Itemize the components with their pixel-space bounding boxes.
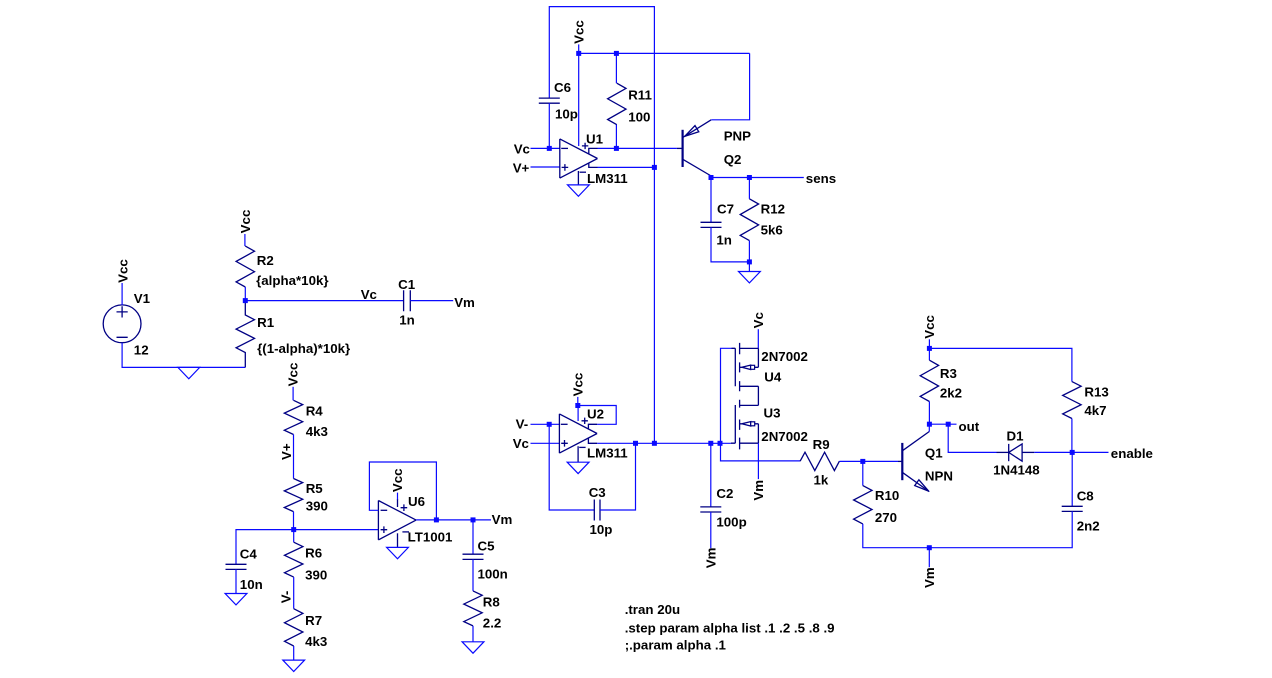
svg-text:U6: U6 <box>408 494 425 509</box>
junction sens/C7 <box>709 175 714 180</box>
svg-text:1n: 1n <box>399 312 415 327</box>
wire U1 output row to Q2 base <box>598 147 677 149</box>
junction Vcc/R3/rail <box>927 346 932 351</box>
svg-text:C5: C5 <box>478 539 496 554</box>
svg-text:sens: sens <box>806 171 836 186</box>
svg-text:LM311: LM311 <box>587 171 628 186</box>
wire U6 feedback loop <box>369 462 436 520</box>
svg-text:Vm: Vm <box>922 567 937 588</box>
svg-text:Vcc: Vcc <box>286 363 301 387</box>
diode D1 1N4148 <box>993 429 1040 478</box>
svg-text:5k6: 5k6 <box>761 223 783 238</box>
capacitor C8 <box>1062 452 1100 533</box>
junction C6/-input <box>547 146 552 151</box>
wire Q2 collector to sens row <box>710 176 712 178</box>
junction C5 tap <box>471 517 476 522</box>
svg-text:R13: R13 <box>1084 385 1108 400</box>
wire Vcc to R2 <box>244 234 246 246</box>
svg-text:Vc: Vc <box>361 287 377 302</box>
svg-text:4k3: 4k3 <box>306 424 328 439</box>
svg-text:.step param alpha list .1 .2 .: .step param alpha list .1 .2 .5 .8 .9 <box>625 620 835 635</box>
svg-text:4k7: 4k7 <box>1084 403 1106 418</box>
wire V1 top to Vcc flag <box>121 283 123 305</box>
svg-text:Q1: Q1 <box>925 446 943 461</box>
wire Vcc flag to R4 <box>292 387 294 401</box>
svg-text:{(1-alpha)*10k}: {(1-alpha)*10k} <box>257 341 350 356</box>
svg-text:R2: R2 <box>257 253 274 268</box>
wire C1 to Vm label <box>410 300 453 302</box>
wire enable node to label <box>1072 451 1108 453</box>
wire C4 to ground <box>235 569 237 593</box>
wire R2 to node <box>244 287 246 301</box>
svg-text:U2: U2 <box>587 407 604 422</box>
wire R6 to R7 (node V-) <box>293 577 295 609</box>
svg-text:Vm: Vm <box>751 480 766 501</box>
wire to ground flag <box>748 262 750 272</box>
transistor Q1 NPN <box>898 432 953 492</box>
svg-text:Vcc: Vcc <box>390 468 405 492</box>
svg-text:10p: 10p <box>590 522 613 537</box>
svg-text:LM311: LM311 <box>587 445 628 460</box>
svg-text:R5: R5 <box>306 481 324 496</box>
svg-text:Vcc: Vcc <box>238 210 253 234</box>
capacitor C5 <box>463 539 508 582</box>
ground flag under V1 rail <box>178 367 200 378</box>
svg-text:C8: C8 <box>1077 489 1094 504</box>
svg-text:C2: C2 <box>716 486 733 501</box>
junction enable node <box>1070 450 1075 455</box>
wire U6 output <box>416 519 491 521</box>
wire C3 left leg <box>549 424 594 510</box>
wire R7 to ground <box>293 646 295 660</box>
wire V1 bottom to ground rail <box>122 343 245 368</box>
wire V- label to U2 -input <box>531 423 560 425</box>
junction R9/R10 <box>860 459 865 464</box>
wire C5 to R8 <box>472 559 474 591</box>
wire U1 gnd pin to long vertical <box>598 166 655 168</box>
svg-text:10n: 10n <box>240 577 263 592</box>
svg-text:Vm: Vm <box>704 547 719 568</box>
mosfet U4 2N7002 <box>732 343 808 406</box>
wire Q2 emitter to Vcc rail <box>711 53 749 119</box>
wire Vc flag to U4 drain <box>757 329 759 348</box>
svg-text:100: 100 <box>628 109 650 124</box>
svg-text:Vm: Vm <box>492 512 513 527</box>
junction Vcc rail / R11 <box>614 51 619 56</box>
svg-text:1k: 1k <box>814 473 829 488</box>
svg-text:V1: V1 <box>134 291 151 306</box>
svg-text:R1: R1 <box>257 315 275 330</box>
resistor R10 <box>854 461 930 547</box>
svg-text:Vm: Vm <box>454 295 475 310</box>
wire out hook to D1 <box>948 424 996 452</box>
ground flag under U2 <box>567 462 589 473</box>
junction Vcc rail / U1 V+ pin <box>576 51 581 56</box>
svg-text:12: 12 <box>134 343 149 358</box>
resistor R11 <box>608 53 653 148</box>
resistor R6 <box>285 530 328 583</box>
ground flag under C4 <box>225 594 247 605</box>
wire U2 V+ pin <box>577 406 579 422</box>
svg-text:R4: R4 <box>306 404 324 419</box>
svg-text:R8: R8 <box>483 595 500 610</box>
wire R9 to Q1 base <box>839 460 898 462</box>
junction R11 bottom <box>614 146 619 151</box>
svg-text:enable: enable <box>1111 446 1153 461</box>
resistor R8 <box>464 591 502 631</box>
junction mid node <box>291 527 296 532</box>
svg-text:Vcc: Vcc <box>571 373 586 397</box>
wire C8 to bottom rail <box>929 511 1072 547</box>
svg-text:1n: 1n <box>716 233 732 248</box>
svg-text:V+: V+ <box>279 443 294 460</box>
wire top loop C6 to long vertical <box>549 7 654 444</box>
junction U6 feedback/output <box>434 517 439 522</box>
capacitor C2 <box>700 443 746 529</box>
capacitor C7 <box>701 178 735 248</box>
op-amp U6 LT1001 <box>378 494 453 547</box>
svg-text:{alpha*10k}: {alpha*10k} <box>256 273 328 288</box>
wire mid node to U6 +input <box>294 529 379 531</box>
resistor R9 <box>800 437 839 487</box>
svg-text:390: 390 <box>305 567 327 582</box>
junction C2 tap <box>708 441 713 446</box>
svg-text:390: 390 <box>306 498 328 513</box>
resistor R4 <box>284 400 328 439</box>
svg-text:Vc: Vc <box>513 436 529 451</box>
svg-text:R3: R3 <box>940 366 957 381</box>
resistor R7 <box>285 609 328 649</box>
resistor R2 <box>236 246 328 288</box>
mosfet U3 2N7002 <box>731 400 808 450</box>
svg-text:V-: V- <box>516 416 529 431</box>
voltage source V1 <box>103 291 150 358</box>
wire mid node to C4 <box>236 530 294 564</box>
junction C3 / -input <box>547 422 552 427</box>
resistor R5 <box>284 479 328 514</box>
node Vc divider junction <box>243 298 248 303</box>
svg-text:C7: C7 <box>717 202 734 217</box>
svg-text:;.param alpha .1: ;.param alpha .1 <box>625 638 727 653</box>
wire sens row <box>711 177 804 179</box>
wire R5 to mid node <box>293 512 295 530</box>
svg-text:4k3: 4k3 <box>305 634 327 649</box>
ground flag under C7/R12 rail <box>739 272 761 283</box>
svg-text:V-: V- <box>278 591 293 604</box>
svg-text:Q2: Q2 <box>724 152 742 167</box>
svg-text:Vcc: Vcc <box>922 315 937 339</box>
svg-text:LT1001: LT1001 <box>408 530 453 545</box>
wire gate riser <box>721 348 732 443</box>
wire Vc node to C1 <box>245 300 403 302</box>
svg-text:2k2: 2k2 <box>940 385 962 400</box>
svg-text:Vc: Vc <box>751 312 766 328</box>
svg-text:.tran 20u: .tran 20u <box>625 602 680 617</box>
svg-text:2n2: 2n2 <box>1077 519 1100 534</box>
comparator U1 LM311 <box>560 132 628 186</box>
resistor R1 <box>236 301 350 368</box>
wire U2 output row <box>597 442 731 444</box>
junction long vertical / U1 gnd pin <box>652 165 657 170</box>
resistor R12 <box>740 178 785 262</box>
wire U3 source to Vm flag <box>757 443 759 479</box>
ground flag under R8 <box>462 642 484 653</box>
svg-text:R12: R12 <box>761 202 785 217</box>
junction gate riser / R9 hook <box>718 441 723 446</box>
resistor R13 <box>1063 382 1109 453</box>
svg-text:R7: R7 <box>305 613 322 628</box>
svg-text:R9: R9 <box>813 437 830 452</box>
ground flag under U6 <box>387 547 409 558</box>
junction long vertical/output <box>652 441 657 446</box>
wire U1 V+ pin <box>578 53 580 146</box>
svg-text:Vcc: Vcc <box>115 259 130 283</box>
junction emitter/bottom rail <box>927 545 932 550</box>
svg-text:C1: C1 <box>398 277 416 292</box>
svg-text:Vcc: Vcc <box>572 20 587 44</box>
svg-text:R11: R11 <box>628 87 652 102</box>
capacitor C1 <box>398 277 416 327</box>
junction rail/ground below R12 <box>747 259 752 264</box>
svg-text:NPN: NPN <box>925 468 953 483</box>
svg-text:100n: 100n <box>478 567 508 582</box>
wire out node row <box>929 423 956 425</box>
capacitor C4 <box>226 547 263 592</box>
wire Vcc rail to R13 <box>929 348 1072 381</box>
svg-text:C4: C4 <box>240 547 258 562</box>
wire emitter junction to Vm flag <box>928 548 930 568</box>
svg-text:D1: D1 <box>1007 429 1025 444</box>
capacitor C3 <box>589 485 613 537</box>
svg-text:270: 270 <box>875 510 897 525</box>
svg-text:C3: C3 <box>589 485 606 500</box>
svg-text:U4: U4 <box>764 369 782 384</box>
junction sens/R12 <box>747 175 752 180</box>
svg-text:C6: C6 <box>554 80 571 95</box>
svg-text:Vc: Vc <box>514 142 530 157</box>
wire R9 hook <box>721 443 801 461</box>
svg-text:100p: 100p <box>716 515 746 530</box>
junction out tap <box>946 422 951 427</box>
resistor R3 <box>920 348 962 424</box>
wire C6 to U1 -input <box>548 103 550 148</box>
svg-text:V+: V+ <box>513 161 530 176</box>
junction C3/output <box>633 441 638 446</box>
wire C2 to Vm flag <box>710 512 712 548</box>
svg-text:2N7002: 2N7002 <box>761 429 808 444</box>
wire Vc label to U2 +input <box>531 442 560 444</box>
wire R8 to ground <box>472 626 474 642</box>
wire D1 to enable node <box>1034 451 1072 453</box>
svg-text:U3: U3 <box>764 406 781 421</box>
wire V+ label to U1 +input <box>531 166 560 168</box>
wire output to C5 <box>472 520 474 554</box>
ground flag under R7 <box>283 660 305 671</box>
svg-text:2N7002: 2N7002 <box>761 349 808 364</box>
wire Vc label to U1 -input <box>531 147 560 149</box>
svg-text:1N4148: 1N4148 <box>993 463 1040 478</box>
junction R3/collector <box>927 422 932 427</box>
Vcc rail above U1 <box>579 52 750 54</box>
svg-text:PNP: PNP <box>724 128 751 143</box>
wire C3 right leg <box>600 443 636 510</box>
comparator U2 LM311 <box>559 407 628 463</box>
ground flag under U1 <box>568 185 590 196</box>
svg-text:10p: 10p <box>555 106 578 121</box>
svg-text:R6: R6 <box>305 545 322 560</box>
svg-text:2.2: 2.2 <box>483 616 502 631</box>
svg-text:out: out <box>959 419 980 434</box>
svg-text:U1: U1 <box>586 132 604 147</box>
wire U2 balance loop <box>578 406 616 425</box>
svg-text:R10: R10 <box>875 488 899 503</box>
transistor Q2 PNP <box>677 120 751 176</box>
capacitor C6 <box>539 80 578 121</box>
wire R4 to R5 (node V+) <box>293 435 295 479</box>
junction U2 V+ / balance loop <box>575 403 580 408</box>
wire C7 to bottom rail <box>711 227 749 262</box>
wire Q1 collector to out node <box>928 424 930 431</box>
